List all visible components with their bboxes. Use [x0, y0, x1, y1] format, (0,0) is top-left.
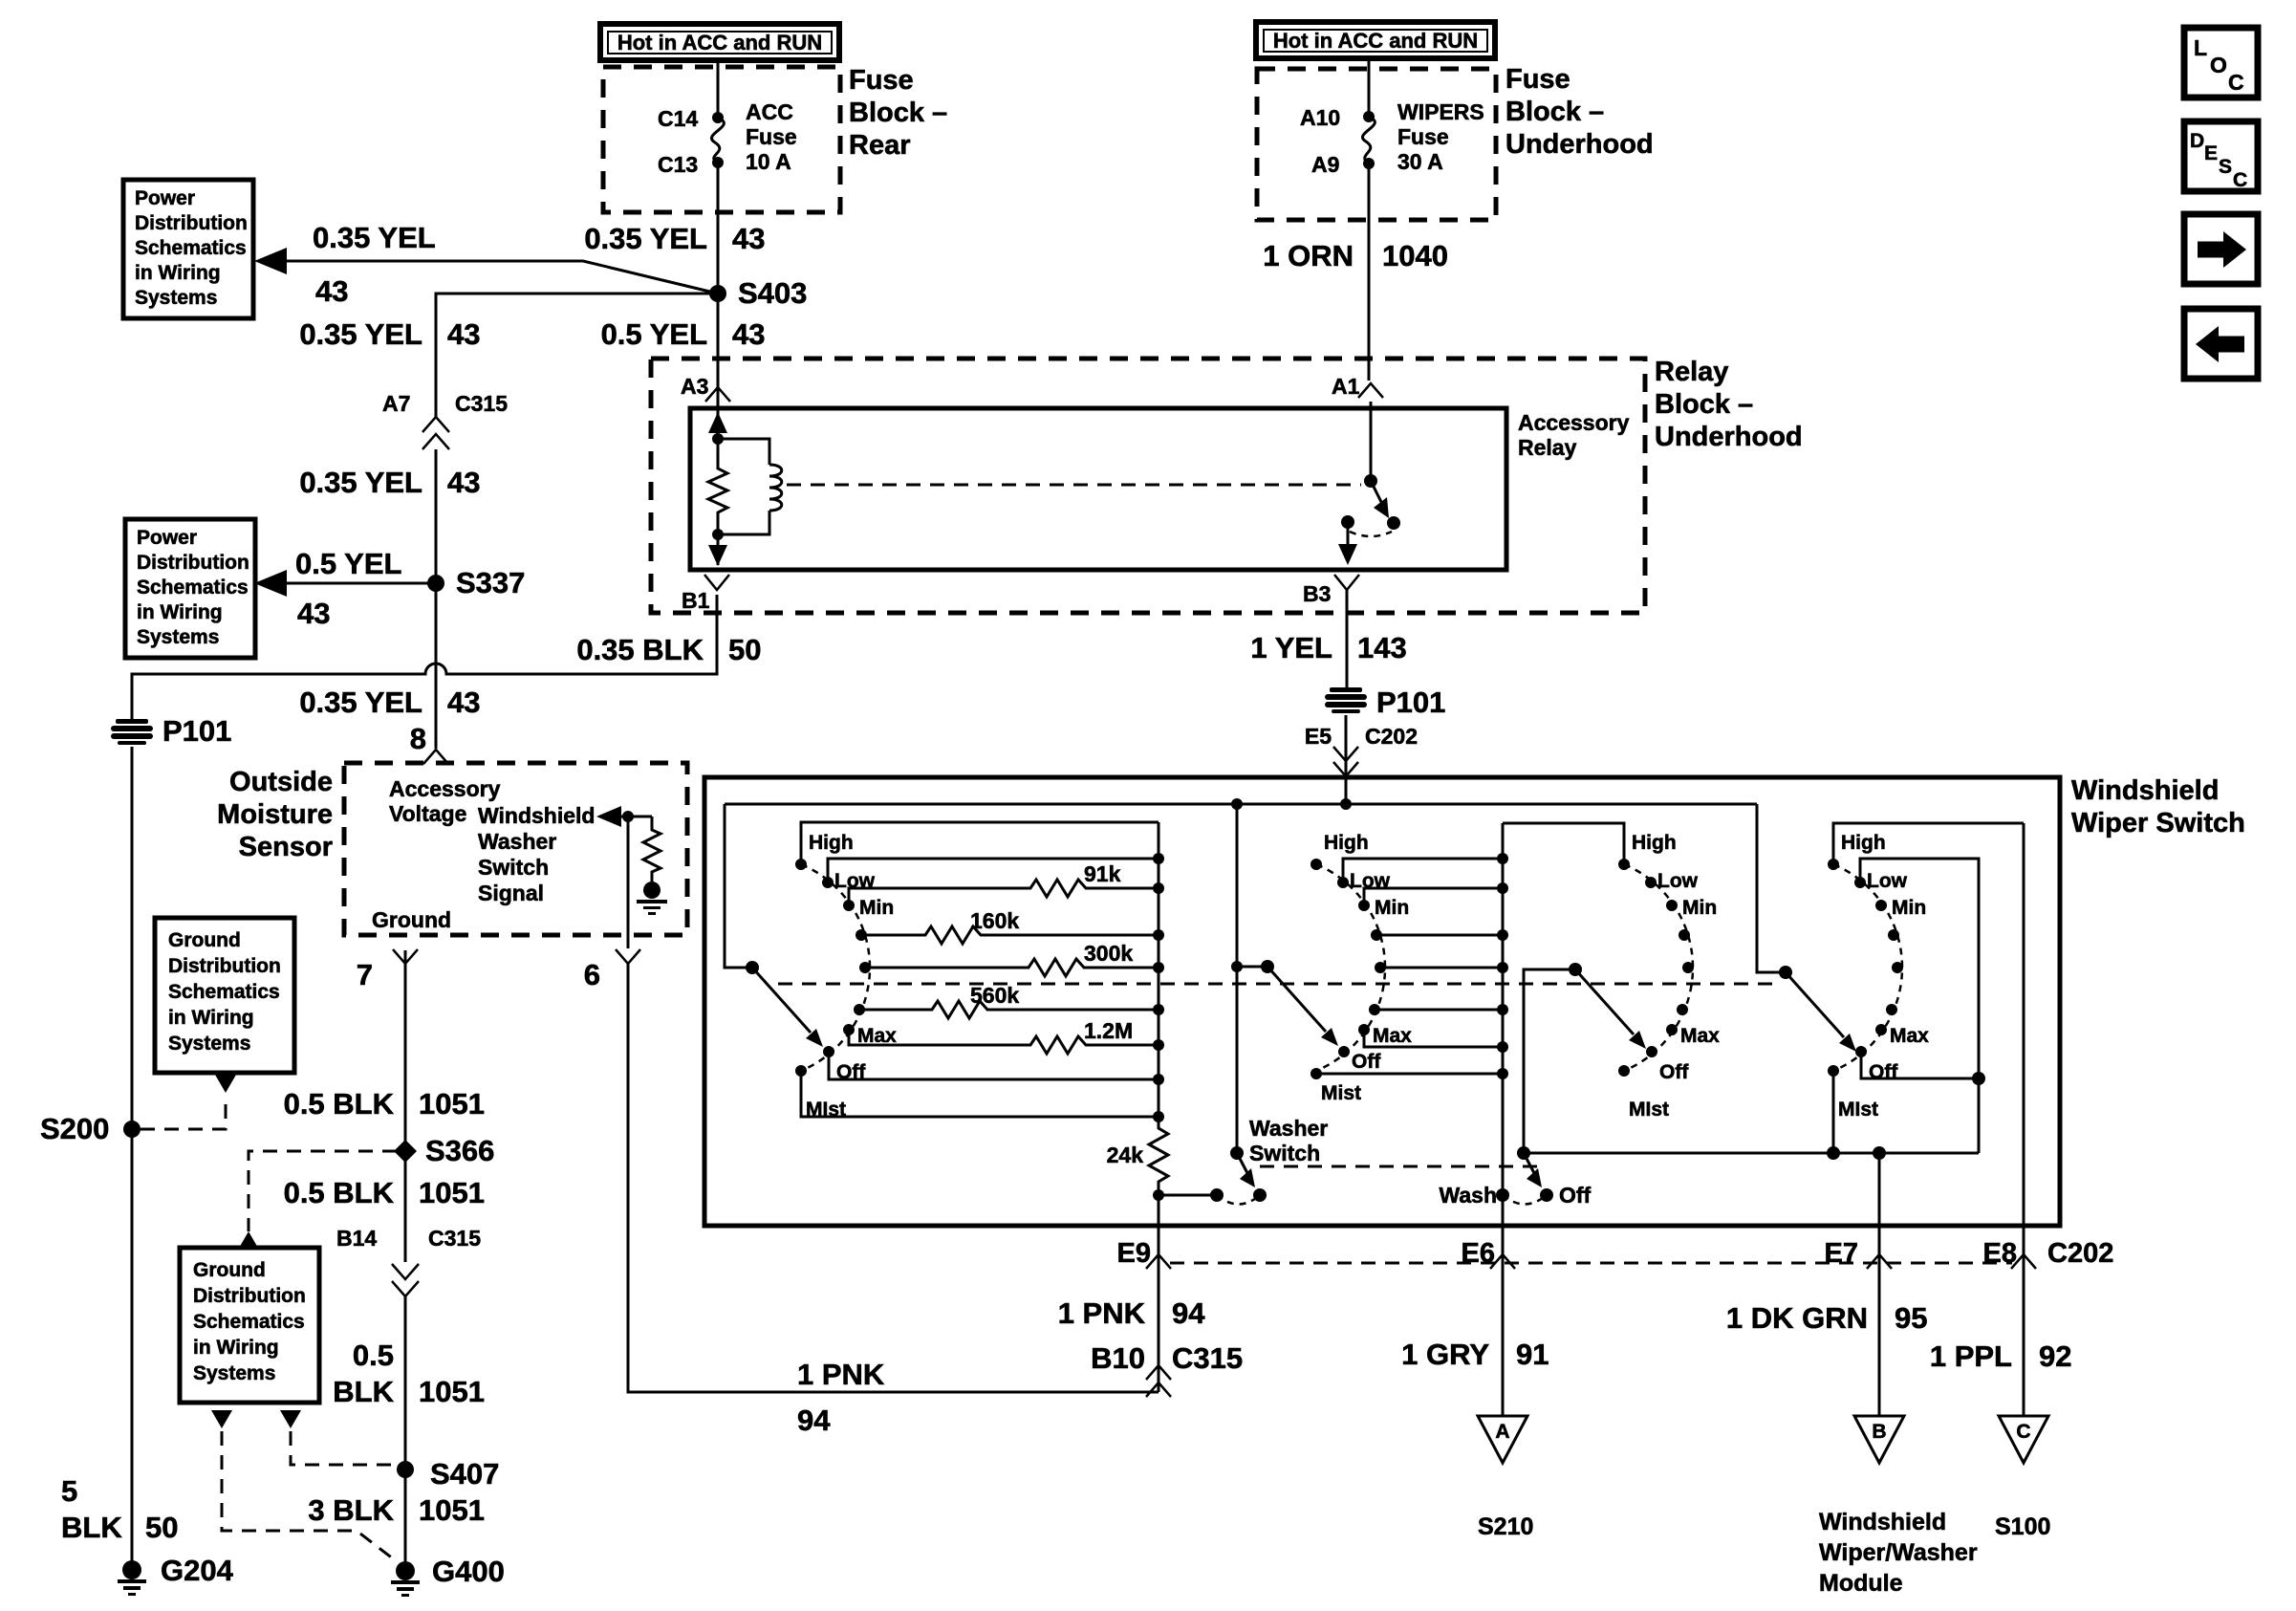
section 4 contact arc (dashed): [1833, 864, 1902, 1071]
section 2 contact arc (dashed): [1316, 864, 1385, 1071]
wire: section 2 Min contact line: [1364, 888, 1503, 905]
svg-text:1051: 1051: [419, 1493, 485, 1527]
wire label 0.35 YEL 43 (above S337): [299, 466, 480, 499]
splice P101 (left pass-through grommet): [111, 714, 231, 748]
wire: feed to section 4 pole: [1757, 804, 1786, 972]
svg-text:Schematics: Schematics: [193, 1311, 305, 1333]
accessory relay body: [690, 408, 1506, 570]
svg-text:0.5 BLK: 0.5 BLK: [284, 1087, 395, 1121]
title: Outside Moisture Sensor: [217, 767, 333, 862]
node S407: [397, 1457, 499, 1491]
washer switch arm: [1237, 1153, 1255, 1187]
sensor internal ground: [637, 882, 667, 915]
svg-text:E8: E8: [1983, 1238, 2017, 1269]
wire: section 2 contact line 6: [1375, 1009, 1503, 1012]
svg-text:S337: S337: [456, 566, 525, 599]
svg-text:Low: Low: [1657, 870, 1699, 892]
washer switch pole node: [1230, 1146, 1244, 1160]
svg-text:50: 50: [728, 633, 761, 666]
svg-text:Accessory: Accessory: [389, 776, 501, 801]
wire: section 4 Off contact line: [1861, 1052, 1985, 1085]
legend box forward arrow: [2184, 214, 2258, 284]
svg-text:O: O: [2210, 53, 2227, 77]
svg-text:Washer: Washer: [1249, 1116, 1328, 1141]
svg-text:1 ORN: 1 ORN: [1263, 239, 1354, 272]
svg-text:5: 5: [61, 1474, 77, 1508]
dashed link to G400: [222, 1431, 398, 1562]
svg-text:92: 92: [2039, 1339, 2071, 1373]
node S337: [427, 566, 525, 599]
wire: section 2 bus (E6 bus): [1497, 823, 1508, 1226]
svg-text:43: 43: [297, 597, 330, 630]
label: Windshield Washer Switch Signal: [478, 803, 595, 905]
label: Accessory Relay: [1518, 410, 1630, 460]
wire label 0.35 YEL 43 (above S403): [584, 222, 765, 255]
svg-text:Max: Max: [1680, 1025, 1720, 1047]
svg-text:C13: C13: [658, 152, 698, 177]
wire: 0.35 BLK 50 from relay B1 left and down to P101: [132, 595, 717, 719]
svg-text:G400: G400: [432, 1555, 505, 1588]
svg-text:24k: 24k: [1107, 1143, 1144, 1167]
svg-text:C: C: [2016, 1421, 2030, 1443]
section 2 contact dots: [1310, 859, 1386, 1079]
svg-text:C14: C14: [658, 106, 698, 131]
svg-text:91k: 91k: [1084, 861, 1121, 886]
label: Accessory Voltage: [389, 776, 501, 826]
svg-text:B: B: [1872, 1421, 1886, 1443]
off-page triangle B: [1854, 1416, 1904, 1463]
svg-text:High: High: [1632, 832, 1677, 854]
dashed connector C202 line (bottom): [1170, 1262, 2012, 1265]
svg-text:94: 94: [797, 1404, 831, 1437]
legend box LOC: [2184, 28, 2258, 98]
svg-text:C315: C315: [1172, 1341, 1243, 1375]
svg-text:Mist: Mist: [1321, 1082, 1361, 1104]
svg-text:S200: S200: [40, 1112, 109, 1145]
svg-text:3 BLK: 3 BLK: [308, 1493, 394, 1527]
svg-text:G204: G204: [161, 1554, 234, 1587]
svg-text:E7: E7: [1825, 1238, 1858, 1269]
wash-off switch pole node: [1517, 1146, 1530, 1160]
section 1 contact dots: [795, 859, 871, 1077]
node: section 3 pole: [1569, 963, 1582, 976]
wire label 5 BLK 50 (above G204): [61, 1474, 178, 1544]
svg-text:Wash: Wash: [1440, 1183, 1498, 1208]
svg-text:1 DK GRN: 1 DK GRN: [1726, 1301, 1868, 1335]
svg-text:Max: Max: [1890, 1025, 1929, 1047]
label: Windshield Wiper/Washer Module: [1819, 1509, 1978, 1597]
svg-text:in Wiring: in Wiring: [137, 601, 223, 623]
wire label 1 ORN 1040: [1263, 239, 1448, 272]
svg-text:94: 94: [1172, 1296, 1205, 1330]
wire label 0.5 YEL / 43 (S337 arrow branch): [295, 547, 401, 630]
title: Fuse Block - Underhood: [1505, 64, 1654, 160]
svg-text:High: High: [1324, 832, 1369, 854]
svg-text:Ground: Ground: [193, 1259, 266, 1281]
wire: section 1 Min line with resistor 91k: [849, 861, 1159, 905]
svg-text:ACC: ACC: [746, 99, 793, 124]
svg-text:E6: E6: [1462, 1238, 1495, 1269]
svg-text:8: 8: [410, 722, 426, 755]
wash-off contacts: [1440, 1183, 1592, 1208]
svg-text:S: S: [2219, 156, 2232, 178]
svg-text:Power: Power: [137, 527, 197, 549]
svg-text:L: L: [2194, 35, 2207, 60]
wire: section 4 Low line down right side: [1860, 859, 1979, 1153]
fuse block rear dashed box: [603, 67, 840, 212]
svg-text:Systems: Systems: [137, 626, 219, 648]
svg-text:A7: A7: [382, 391, 410, 416]
link arrow from ground box 1: [215, 1075, 236, 1093]
legend box back arrow: [2184, 309, 2258, 379]
wire label 0.5 BLK 1051 (above S407): [333, 1339, 485, 1408]
wire: section 4 Mist stub: [1827, 1071, 1840, 1160]
switch arm section 2: [1267, 967, 1338, 1046]
svg-text:A9: A9: [1311, 152, 1339, 177]
svg-text:Schematics: Schematics: [137, 577, 249, 599]
title: Fuse Block - Rear: [849, 65, 947, 161]
svg-text:Relay: Relay: [1518, 435, 1577, 460]
pin B1 chevron and label: [682, 575, 729, 613]
svg-text:Fuse: Fuse: [746, 124, 797, 149]
svg-text:Moisture: Moisture: [217, 799, 333, 830]
svg-text:WIPERS: WIPERS: [1397, 99, 1484, 124]
wire: section 2 Max contact line: [1364, 1030, 1503, 1047]
node S403: [709, 276, 807, 310]
svg-text:91: 91: [1516, 1338, 1549, 1371]
svg-text:43: 43: [732, 222, 765, 255]
node S366: [394, 1134, 494, 1167]
link arrows below ground box 2: [211, 1410, 232, 1428]
svg-text:Systems: Systems: [135, 287, 217, 309]
wire: P101 down to G204: [131, 747, 134, 1570]
wire label 1 PNK 94 (E9): [1058, 1296, 1206, 1330]
node: section 1 pole: [746, 961, 759, 974]
dashed link S200 to ground box 1: [141, 1097, 226, 1129]
connector B10 / C315 (double chevron up): [1091, 1341, 1243, 1397]
svg-text:43: 43: [447, 317, 480, 351]
section 3 contact arc (dashed): [1624, 864, 1693, 1071]
svg-text:0.5 BLK: 0.5 BLK: [284, 1176, 395, 1209]
wire: section 1 High contact line: [801, 822, 1159, 864]
section 1 contact arc (dashed): [801, 864, 870, 1071]
title: Windshield Wiper Switch: [2071, 775, 2245, 838]
wire: section 2 contact line 4: [1376, 934, 1503, 937]
wire: pin 6 down to 1 PNK run: [628, 964, 1159, 1392]
svg-text:Windshield: Windshield: [1819, 1509, 1946, 1535]
connector E5 / C202 (double chevron down): [1305, 724, 1418, 776]
svg-text:Washer: Washer: [478, 829, 556, 854]
svg-text:B10: B10: [1091, 1341, 1145, 1375]
node S200: [40, 1112, 141, 1145]
wire: section 2 contact line 5: [1380, 967, 1503, 969]
wire: section 3 pole feed / wash-off pole: [1524, 969, 1979, 1153]
outside moisture sensor dashed box: [344, 763, 687, 935]
svg-text:MIst: MIst: [1838, 1099, 1878, 1121]
svg-text:Ground: Ground: [372, 907, 451, 932]
switch arm section 4: [1786, 972, 1856, 1052]
wire: P101 down to E5: [1345, 715, 1348, 777]
svg-text:Distribution: Distribution: [137, 552, 249, 574]
svg-text:1 PNK: 1 PNK: [1058, 1296, 1146, 1330]
svg-text:in Wiring: in Wiring: [168, 1007, 254, 1029]
wire: bus 2 top link to section 3 High: [1503, 823, 1624, 864]
wire: E5 entry into box: [1345, 776, 1348, 804]
svg-text:E5: E5: [1305, 724, 1332, 749]
svg-text:Off: Off: [1659, 1061, 1689, 1083]
resistor 24k: [1107, 1117, 1168, 1195]
section 4 position labels: [1838, 832, 1929, 1121]
node: section 4 pole: [1779, 966, 1792, 979]
wire label 0.35 BLK 50: [576, 633, 761, 666]
switch arm section 1: [752, 968, 823, 1047]
svg-text:C: C: [2228, 70, 2244, 95]
label: Washer Switch: [1249, 1116, 1328, 1165]
svg-text:in Wiring: in Wiring: [193, 1337, 279, 1359]
svg-text:C: C: [2233, 169, 2247, 191]
svg-text:Off: Off: [1869, 1061, 1898, 1083]
fuse F-ACC 10A (C14/C13): [711, 112, 724, 168]
wire: arrow branch from S403 to power distribution schematics (top): [254, 248, 718, 294]
svg-text:Off: Off: [1352, 1051, 1381, 1073]
pin B3 chevron and label: [1303, 575, 1359, 606]
svg-text:Min: Min: [1682, 897, 1717, 919]
svg-text:Schematics: Schematics: [168, 981, 280, 1003]
svg-text:S366: S366: [425, 1134, 494, 1167]
svg-text:D: D: [2190, 130, 2204, 152]
svg-text:High: High: [809, 832, 854, 854]
svg-text:Max: Max: [1373, 1025, 1412, 1047]
wire: section 1 line with resistor 160k: [861, 908, 1159, 944]
connector A7 / C315 (double chevron): [382, 391, 508, 449]
svg-text:Distribution: Distribution: [168, 955, 281, 977]
svg-text:1051: 1051: [419, 1176, 485, 1209]
svg-text:Underhood: Underhood: [1655, 422, 1803, 452]
sensor signal arrow: [596, 806, 652, 827]
svg-text:30 A: 30 A: [1397, 149, 1443, 174]
svg-text:6: 6: [584, 958, 600, 991]
wire: S403 down to relay A3: [717, 294, 720, 411]
svg-text:1 PPL: 1 PPL: [1930, 1339, 2012, 1373]
pin E9: [1117, 1226, 1171, 1392]
svg-text:MIst: MIst: [1629, 1099, 1669, 1121]
wire: S337 down to sensor pin 8: [435, 583, 438, 749]
svg-text:Schematics: Schematics: [135, 237, 247, 259]
svg-text:Fuse: Fuse: [1397, 124, 1449, 149]
svg-text:Rear: Rear: [849, 130, 911, 161]
svg-text:Fuse: Fuse: [849, 65, 914, 96]
wire: fuse feed from banner: [1368, 58, 1371, 117]
pin A3 chevron and label: [681, 374, 730, 402]
svg-text:0.35 YEL: 0.35 YEL: [584, 222, 707, 255]
wire label 1 PPL 92: [1930, 1339, 2072, 1373]
svg-text:1051: 1051: [419, 1375, 485, 1408]
switch arm section 3: [1575, 969, 1646, 1049]
svg-text:E9: E9: [1117, 1238, 1151, 1269]
pin A1 chevron and label: [1332, 374, 1383, 399]
wire: left bus to section 1 wiper pole: [725, 804, 752, 968]
relay coil output wire with down arrow to B1: [708, 534, 727, 566]
relay armature switch: [1338, 408, 1400, 565]
svg-text:Accessory: Accessory: [1518, 410, 1630, 435]
svg-text:E: E: [2204, 142, 2218, 164]
svg-text:B14: B14: [336, 1226, 377, 1251]
svg-text:0.35 YEL: 0.35 YEL: [313, 221, 436, 254]
value label: ACC Fuse 10 A: [746, 99, 797, 174]
svg-text:A10: A10: [1300, 105, 1340, 130]
wire: A7 down to S337: [435, 449, 438, 583]
pin 7 chevron and label: [357, 949, 418, 991]
wire label 1 PNK / 94 (bottom run): [797, 1358, 885, 1437]
svg-text:1 PNK: 1 PNK: [797, 1358, 885, 1391]
dashed mechanical link (washer switches): [1260, 1165, 1539, 1168]
wire label 0.35 YEL 43 (above A7): [299, 317, 480, 351]
svg-text:BLK: BLK: [61, 1511, 122, 1544]
windshield wiper switch box: [704, 777, 2060, 1226]
wire label 1 GRY 91: [1401, 1338, 1549, 1371]
svg-text:1051: 1051: [419, 1087, 485, 1121]
wire: section 1 line with resistor 560k: [859, 983, 1159, 1018]
svg-text:S403: S403: [738, 276, 807, 310]
wire: pole branch to section 2: [1237, 966, 1267, 969]
section 2 position labels: [1321, 832, 1412, 1104]
svg-text:Relay: Relay: [1655, 357, 1728, 387]
svg-text:560k: 560k: [970, 983, 1019, 1008]
washer switch feed wire: [1231, 804, 1243, 1153]
svg-text:143: 143: [1357, 631, 1407, 664]
off-page triangle C: [1999, 1416, 2048, 1463]
svg-text:0.35 YEL: 0.35 YEL: [299, 466, 422, 499]
svg-text:Windshield: Windshield: [478, 803, 595, 828]
relay resistor: [708, 439, 727, 534]
svg-text:Systems: Systems: [193, 1362, 275, 1384]
legend box DESC: [2184, 121, 2258, 191]
svg-text:Module: Module: [1819, 1570, 1903, 1597]
wire: section 2 Low contact line: [1343, 859, 1503, 882]
relay block underhood dashed box: [651, 359, 1645, 613]
svg-text:Min: Min: [1892, 897, 1926, 919]
wire label 0.35 YEL 43 / 8 (above pin 8): [299, 686, 480, 755]
svg-text:Block –: Block –: [1505, 97, 1604, 127]
svg-text:Hot in ACC and RUN: Hot in ACC and RUN: [1273, 29, 1478, 53]
svg-text:50: 50: [145, 1511, 178, 1544]
wire: section 1 Low contact line: [828, 859, 1159, 882]
wire: section 2 Mist contact line: [1316, 1073, 1503, 1076]
wire: E9 bus to box bottom: [1153, 1189, 1164, 1226]
wire label 3 BLK 1051 (below S407): [308, 1493, 485, 1527]
svg-text:Wiper/Washer: Wiper/Washer: [1819, 1539, 1978, 1566]
svg-text:Sensor: Sensor: [239, 832, 333, 862]
svg-text:1.2M: 1.2M: [1084, 1018, 1133, 1043]
svg-text:160k: 160k: [970, 908, 1019, 933]
dashed link S366 to ground box 2: [249, 1151, 397, 1231]
svg-text:7: 7: [357, 958, 373, 991]
svg-text:Distribution: Distribution: [193, 1285, 306, 1307]
wire: section 1 Max line with resistor 1.2M: [849, 1018, 1159, 1054]
svg-text:43: 43: [447, 686, 480, 719]
sensor resistor: [643, 816, 661, 882]
svg-text:Power: Power: [135, 187, 195, 209]
svg-text:P101: P101: [162, 714, 231, 748]
svg-text:Systems: Systems: [168, 1033, 250, 1055]
ground distribution schematics box 2: [180, 1248, 319, 1403]
pin 6 chevron and label: [584, 935, 640, 991]
svg-text:Min: Min: [859, 897, 894, 919]
wire: section 1 Off contact line: [829, 1052, 1159, 1079]
svg-text:0.35 YEL: 0.35 YEL: [299, 317, 422, 351]
wire: pin 6 internal drop: [627, 816, 630, 935]
svg-text:Switch: Switch: [478, 855, 549, 880]
fuse F-WIPERS 30A (A10/A9): [1362, 111, 1375, 169]
svg-text:43: 43: [447, 466, 480, 499]
wire: B14 down to G400: [404, 1296, 407, 1571]
svg-text:C315: C315: [455, 391, 508, 416]
wire: fuse output down to relay A1: [1369, 163, 1371, 408]
wire label 1 YEL 143: [1250, 631, 1406, 664]
svg-text:Fuse: Fuse: [1505, 64, 1570, 95]
relay coil input wire with up arrow: [708, 408, 727, 445]
splice P101 (right pass-through grommet): [1325, 686, 1445, 719]
power distribution schematics box 2: [125, 519, 255, 658]
dashed link to S407: [291, 1431, 397, 1465]
svg-text:S210: S210: [1478, 1513, 1533, 1540]
svg-text:Wiper Switch: Wiper Switch: [2071, 808, 2245, 838]
svg-text:0.5 YEL: 0.5 YEL: [601, 317, 707, 351]
relay coil L1: [712, 439, 782, 540]
pin 8 chevron: [423, 750, 448, 764]
wire label 0.5 YEL 43 (above A3): [601, 317, 766, 351]
hot-in-acc-and-run banner (rear fuse block): [600, 24, 839, 60]
svg-text:Hot in ACC and RUN: Hot in ACC and RUN: [617, 31, 822, 54]
svg-text:Outside: Outside: [229, 767, 333, 797]
wire label 0.5 BLK 1051 (above S366): [284, 1087, 485, 1121]
svg-text:1 YEL: 1 YEL: [1250, 631, 1332, 664]
wire: sensor pin 7 down to B14: [404, 950, 407, 1262]
section 3 position labels: [1629, 832, 1720, 1121]
wire: section 4 High line to E8 bus: [1833, 823, 2024, 864]
connector B14 / C315 (double chevron down): [336, 1226, 481, 1296]
wire: section 1 Mist contact line: [801, 1071, 1159, 1117]
wire: E8 bus: [2023, 823, 2025, 1226]
dashed mechanical link (wiper sections): [778, 983, 1780, 986]
wire label 0.5 BLK 1051 (below S366): [284, 1176, 485, 1209]
node: section 2 pole: [1261, 960, 1274, 973]
link arrow into ground box 2: [238, 1231, 259, 1250]
wire: section 1 line with resistor 300k: [865, 941, 1159, 976]
svg-text:S100: S100: [1995, 1513, 2050, 1540]
dashed mechanical link coil to armature: [787, 484, 1361, 487]
wire: arrow from S337 to power distribution schematics (lower): [254, 570, 436, 597]
svg-text:0.35 BLK: 0.35 BLK: [576, 633, 704, 666]
wire label 0.35 YEL / 43 (arrow branch): [313, 221, 436, 308]
power distribution schematics box 1: [123, 180, 253, 318]
wire label 1 DK GRN 95: [1726, 1301, 1928, 1335]
pin E7: [1825, 1226, 1892, 1416]
svg-text:Low: Low: [1867, 870, 1908, 892]
wire: internal feed bus (top): [725, 798, 1757, 810]
svg-text:1040: 1040: [1382, 239, 1448, 272]
svg-text:0.5: 0.5: [353, 1339, 394, 1372]
svg-text:10 A: 10 A: [746, 149, 791, 174]
svg-text:C202: C202: [1365, 724, 1418, 749]
section 1 position labels: [806, 832, 897, 1121]
svg-text:43: 43: [315, 274, 348, 308]
svg-text:Windshield: Windshield: [2071, 775, 2219, 806]
svg-text:95: 95: [1895, 1301, 1927, 1335]
title: Relay Block - Underhood: [1655, 357, 1803, 452]
svg-text:1 GRY: 1 GRY: [1401, 1338, 1489, 1371]
svg-text:Signal: Signal: [478, 881, 544, 905]
